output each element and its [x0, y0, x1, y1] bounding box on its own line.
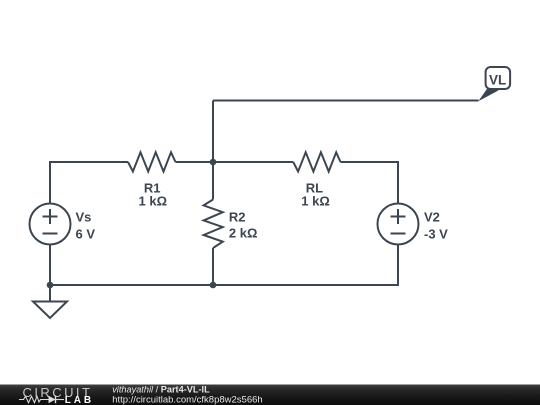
svg-text:-3 V: -3 V [424, 226, 448, 241]
voltage source V2 [378, 204, 419, 245]
wire left vertical top [49, 162, 51, 204]
svg-text:6 V: 6 V [76, 226, 96, 241]
wire node A up [212, 101, 214, 163]
wire RL to right [341, 161, 400, 163]
wire top-left horizontal [49, 161, 128, 163]
wire to VL [213, 100, 479, 102]
ground [33, 302, 67, 319]
svg-text:2 kΩ: 2 kΩ [229, 225, 258, 240]
node A junction dot [210, 159, 217, 166]
svg-text:vithayathil / Part4-VL-IL: vithayathil / Part4-VL-IL [112, 385, 210, 395]
node bottom junction dot [210, 282, 217, 289]
wire ground stub [49, 285, 51, 302]
wire right vertical top [397, 162, 399, 204]
wire node A down [212, 162, 214, 200]
svg-text:1 kΩ: 1 kΩ [301, 194, 330, 209]
node VL flag box [486, 67, 511, 89]
svg-text:LAB: LAB [65, 395, 94, 405]
node VL flag tail [478, 89, 499, 101]
svg-text:V2: V2 [424, 210, 440, 225]
wire left vertical bottom [49, 245, 51, 286]
wire right vertical bottom [397, 245, 399, 286]
svg-text:VL: VL [489, 72, 506, 87]
wire R1 to node A [176, 161, 294, 163]
svg-text:1 kΩ: 1 kΩ [139, 194, 168, 209]
svg-text:http://circuitlab.com/cfk8p8w2: http://circuitlab.com/cfk8p8w2s566h [112, 394, 263, 405]
wire bottom horizontal [49, 284, 399, 286]
resistor R1 [128, 152, 176, 171]
resistor RL [293, 152, 340, 171]
logo resistor squiggle [19, 396, 49, 402]
resistor R2 [204, 200, 223, 249]
voltage source Vs [30, 204, 71, 245]
footer bar [0, 385, 540, 405]
ground junction dot [47, 282, 54, 289]
svg-text:Vs: Vs [76, 210, 92, 225]
wire R2 to bottom [212, 248, 214, 285]
svg-text:R2: R2 [229, 210, 246, 225]
logo diode [49, 396, 56, 403]
